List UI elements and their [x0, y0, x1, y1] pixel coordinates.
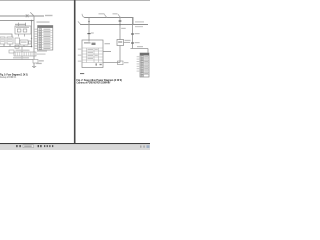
connector block C206: [15, 45, 19, 48]
connector C204 small box: [9, 50, 14, 53]
splice arc rail1 at x120: [113, 13, 121, 17]
wire: diagonal feed into node at x34: [30, 12, 34, 16]
inline connector dash on x120 wire: [119, 20, 122, 22]
pin table (left page) row labels: [34, 29, 37, 49]
wire: bottom horizontal y62.5: [103, 62, 120, 64]
caption right page line 1: [77, 78, 123, 82]
wire: right rail 2: [78, 21, 148, 24]
connector strip C101: [14, 52, 36, 56]
node: junction bus A / y46.5: [31, 46, 33, 48]
svg-text:Fig. 5: Fuse Diagram (1 Of 2): Fig. 5: Fuse Diagram (1 Of 2): [0, 73, 28, 77]
fuse/relay box header text: [84, 42, 96, 45]
diode D1 small box: [29, 41, 32, 44]
pin table (left page) pin value text: [43, 29, 50, 49]
row labels left of box: [78, 49, 81, 62]
switch SW1 box: [20, 40, 28, 45]
pin table (right page) row lines: [140, 58, 149, 75]
wire: vertical bus A: [31, 21, 33, 47]
fuse/relay box (right page) outline: [82, 40, 103, 68]
relay K1 outline: [15, 26, 31, 34]
wire: left second rail: [0, 20, 34, 22]
inline connector dash on x89 wire: [87, 32, 93, 33]
wire: relay K1 coil feeds from rail: [19, 23, 26, 26]
page number input box: [23, 145, 34, 148]
wire: drop to connector strip: [21, 47, 23, 53]
caption left page line 1: [0, 73, 28, 77]
component box U2: [117, 40, 124, 46]
pin table (right page) header bar: [140, 53, 149, 56]
label: ground name: [36, 63, 42, 64]
label right of box top: [105, 43, 111, 44]
page area top border: [0, 0, 150, 2]
pagination next/last buttons: [38, 145, 42, 147]
pin table (left page) header bar: [38, 26, 53, 28]
node: junction rail2 / bus A: [31, 20, 33, 22]
wire: vertical drop x120: [119, 18, 121, 41]
pin table (right page) pin cells: [141, 56, 143, 77]
label: pin table title: [37, 21, 50, 22]
terminal marks L + inside box bottom: [96, 63, 102, 65]
pagination first/prev buttons: [16, 145, 21, 147]
wire: long horizontal y59.5: [0, 59, 33, 61]
wire: right top rail 1 with corner down: [84, 18, 133, 25]
pin table (left page) outline: [38, 26, 53, 51]
wire: horizontal bus y46.5: [0, 44, 32, 47]
node: junction x120/rail2: [119, 24, 121, 26]
toolbar right grip icons: [140, 145, 150, 148]
label: wire gauge text at rail end: [45, 15, 53, 16]
svg-text:Courtesy of FORD CO.: Courtesy of FORD CO.: [0, 76, 17, 79]
svg-text:Courtesy of FORD MOTOR COMPANY: Courtesy of FORD MOTOR COMPANY: [77, 81, 111, 85]
inline connector C310 at corner: [118, 61, 129, 65]
label tick right of U2: [124, 40, 131, 43]
toolbar view-mode buttons: [44, 145, 53, 147]
inline connector dash lower on x132.5: [131, 42, 140, 43]
wire: relay K1 outputs down: [19, 34, 25, 37]
pin table (right page) pin value text: [144, 56, 148, 74]
label: pin table lower notes: [37, 51, 47, 55]
ground marker below box: [80, 73, 84, 74]
wire: left top power rail: [0, 15, 44, 17]
wire: vertical x120 lower segment: [119, 46, 121, 63]
label: relay K1 name above: [15, 24, 29, 28]
wire: vertical drop x89: [88, 18, 90, 42]
connector block C202: [7, 37, 13, 44]
wire: feed into connector row: [0, 34, 12, 37]
toolbar top border: [0, 143, 150, 144]
ground G101: [32, 66, 36, 67]
label: text above connector strip: [16, 50, 30, 51]
wire: vertical bus B: [33, 16, 35, 67]
wire: vertical bus x132.5: [132, 18, 134, 49]
toolbar background: [0, 144, 150, 150]
pin table (right page) row labels outside: [137, 56, 140, 71]
fuse row value text: [88, 49, 98, 59]
wire: drop from strip to long wire: [21, 56, 23, 60]
connector block C201: [0, 37, 5, 44]
fuse grid inside box: [82, 48, 103, 63]
wire: horizontal y48.5 to pin table: [131, 46, 149, 53]
splice S201 marker on top rail: [26, 14, 29, 17]
pin table (right page) outline: [140, 53, 149, 77]
pin table (left page) pin cells: [39, 29, 42, 50]
splice arc at rail1 start: [82, 14, 85, 18]
wire: from box right at y51.5: [103, 51, 111, 53]
label: wire text right of rail corner: [135, 21, 144, 27]
inline connector dash upper on x132.5: [131, 33, 140, 34]
inline connector C205 on wire end: [33, 60, 44, 64]
label: wire color x120: [121, 28, 126, 29]
label: text above long wire: [13, 57, 29, 58]
relay K1 contact cells: [17, 29, 27, 32]
caption right page line 2: [77, 81, 111, 85]
node: junction on x89 drop: [88, 21, 90, 23]
connector block C203: [15, 38, 20, 44]
node: junction bus A mid: [31, 38, 32, 39]
caption left page line 2: [0, 76, 17, 79]
page divider line: [74, 0, 76, 143]
pin table (left page) row lines: [38, 30, 53, 47]
splice arc mid rail1: [99, 13, 108, 17]
